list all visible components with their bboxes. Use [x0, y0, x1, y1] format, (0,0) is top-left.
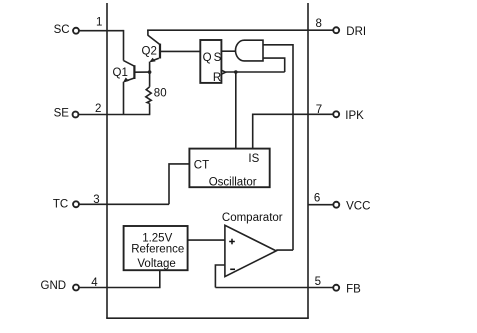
svg-text:6: 6 — [314, 192, 320, 204]
wire R input line — [226, 71, 285, 73]
wire FB to comparator minus — [215, 287, 333, 289]
IC package left edge — [106, 3, 108, 318]
svg-text:Comparator: Comparator — [222, 212, 283, 224]
wire comparator minus input from FB — [215, 265, 225, 288]
oscillator block — [189, 149, 269, 188]
svg-text:Q: Q — [203, 52, 212, 64]
svg-text:DRI: DRI — [346, 26, 366, 38]
svg-text:7: 7 — [316, 104, 322, 116]
latch R input wedge — [221, 70, 225, 74]
wire Q1 emitter to SE — [123, 82, 125, 115]
wire reference to comparator plus input — [188, 239, 225, 241]
wire pin3 TC — [79, 203, 169, 205]
svg-text:8: 8 — [316, 18, 322, 30]
svg-text:FB: FB — [346, 284, 361, 296]
svg-text:CT: CT — [194, 160, 209, 172]
wire latch Q output to Q2 base — [160, 50, 200, 52]
pin 2 terminal SE — [73, 112, 79, 118]
wire Q2 collector to pin 8 DRI — [147, 29, 333, 31]
svg-text:Reference: Reference — [131, 244, 184, 256]
svg-text:5: 5 — [315, 276, 321, 288]
IC package bottom edge — [106, 317, 309, 319]
svg-text:R: R — [213, 72, 221, 84]
wire Q2 emitter down to node — [149, 62, 151, 73]
svg-text:GND: GND — [41, 280, 67, 292]
junction node Q1 base / Q2 emitter / resistor — [148, 70, 152, 74]
svg-text:1: 1 — [96, 17, 102, 29]
junction node R / oscillator — [234, 70, 238, 74]
pin 4 terminal GND — [73, 285, 79, 291]
pin 6 terminal VCC — [333, 202, 339, 208]
pin 3 terminal TC — [73, 201, 79, 207]
comparator plus sign — [229, 239, 235, 245]
IC package right edge — [307, 3, 309, 318]
wire AND output to latch S input — [221, 50, 236, 52]
wire oscillator IS to pin 7 — [253, 114, 333, 148]
svg-text:SC: SC — [54, 24, 70, 36]
pin 5 terminal FB — [333, 285, 339, 291]
svg-text:Oscillator: Oscillator — [209, 177, 257, 189]
pin 1 terminal SC — [73, 28, 79, 34]
svg-text:VCC: VCC — [346, 201, 370, 213]
pin 8 terminal DRI — [333, 27, 339, 33]
wire AND bottom input from oscillator/R line — [263, 58, 285, 72]
wire SC vertical drop — [123, 30, 125, 61]
wire comparator output — [276, 249, 293, 251]
wire pin2 SE to resistor bottom — [79, 114, 150, 116]
wire reference block to ground — [79, 270, 159, 287]
resistor 80 — [146, 72, 151, 114]
transistor Q2 — [148, 30, 160, 62]
latch U1 (set/reset) — [200, 40, 221, 83]
svg-text:IS: IS — [248, 153, 259, 165]
wire CT input — [169, 164, 189, 204]
transistor Q1 — [123, 61, 134, 83]
svg-text:S: S — [214, 52, 222, 64]
comparator U2 — [225, 225, 276, 276]
svg-text:IPK: IPK — [345, 110, 364, 122]
wire junction down to oscillator — [235, 72, 237, 149]
svg-text:SE: SE — [54, 107, 70, 119]
comparator minus sign — [230, 268, 235, 270]
svg-text:4: 4 — [91, 277, 98, 289]
svg-text:3: 3 — [93, 194, 99, 206]
AND gate G1 (pointing left) — [236, 40, 264, 61]
svg-text:Voltage: Voltage — [137, 258, 175, 270]
wire AND top input from comparator — [263, 45, 293, 250]
wire pin6 VCC stub — [308, 204, 333, 206]
svg-text:Q2: Q2 — [142, 45, 157, 57]
svg-text:TC: TC — [53, 199, 68, 211]
wire pin1 SC to Q1 collector drop — [79, 30, 123, 32]
wire Q1 base to node — [134, 71, 149, 73]
svg-text:2: 2 — [95, 103, 101, 115]
svg-text:80: 80 — [154, 88, 167, 100]
reference voltage block — [124, 226, 188, 270]
pin 7 terminal IPK — [333, 111, 339, 117]
svg-text:Q1: Q1 — [113, 67, 128, 79]
